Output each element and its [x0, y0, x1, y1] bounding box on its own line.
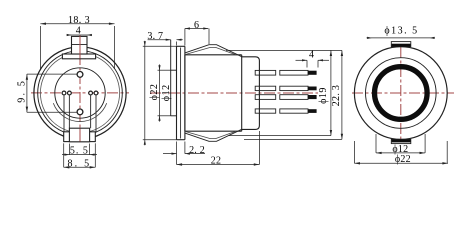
- terminal pin 3: [89, 91, 93, 95]
- bottom LED pin: [77, 109, 83, 115]
- centerline horizontal: [31, 92, 129, 94]
- middle view: side profile of pushbutton: [150, 40, 318, 142]
- dimension 22.3 (overall height): [331, 50, 343, 139]
- top clip tab: [391, 42, 411, 47]
- top keyway tab base bar: [62, 54, 95, 59]
- body barrel: [184, 55, 186, 131]
- svg-text:4: 4: [309, 50, 314, 61]
- dimension 3.7 (plunger protrusion): [147, 31, 182, 45]
- pin 4 lead line: [95, 95, 97, 132]
- centerline: [150, 92, 318, 94]
- extension line phi19 bottom: [229, 135, 331, 137]
- terminal pin 2: [68, 91, 72, 95]
- svg-text:6: 6: [194, 20, 199, 31]
- extension line top (22.3): [226, 49, 342, 51]
- svg-text:ϕ19: ϕ19: [318, 87, 329, 104]
- terminal pin 4: [94, 91, 98, 95]
- bezel inner circle: [38, 51, 123, 136]
- centerline horizontal: [352, 92, 454, 94]
- svg-text:9. 5: 9. 5: [16, 79, 27, 103]
- svg-text:ϕ13. 5: ϕ13. 5: [384, 25, 418, 36]
- plunger bottom: [171, 115, 177, 117]
- dimension phi13.5 (seal ring dia): [367, 25, 436, 39]
- dimension phi22 (outer dia): [354, 141, 448, 165]
- left view: front face of pushbutton: [31, 35, 129, 142]
- terminal housing end cap: [242, 57, 260, 130]
- svg-text:ϕ12: ϕ12: [161, 84, 172, 101]
- bottom locking key ramp: [185, 129, 242, 141]
- bezel ring (side): [176, 46, 178, 139]
- outer bezel circle: [34, 47, 126, 139]
- dimension 2.2 (bezel thickness): [163, 142, 205, 157]
- dimension 9.5 (pin spacing, left): [16, 74, 76, 112]
- plunger top: [171, 69, 177, 71]
- top keyway tab: [72, 36, 88, 54]
- top LED pin: [77, 72, 83, 78]
- lower arc of inner shoulder: [53, 103, 106, 121]
- plunger front face: [170, 40, 172, 116]
- bezel chamfer line: [180, 48, 182, 139]
- terminal pins: [255, 70, 276, 75]
- bottom clip tab: [391, 139, 411, 143]
- centerline vertical: [79, 35, 81, 142]
- centerline vertical: [400, 47, 402, 139]
- pin 3 lead line: [90, 95, 92, 128]
- extension line bottom (22.3): [244, 138, 342, 140]
- pin 2 lead line: [68, 95, 70, 128]
- dimension 4 (terminal length): [296, 50, 330, 68]
- dimension 6 (key length): [185, 20, 209, 45]
- button recess circle: [55, 68, 105, 118]
- centerline vertical (over tabs): [79, 35, 81, 59]
- pin 1 lead line: [63, 95, 65, 132]
- dimension 4 (tab width): [67, 26, 93, 37]
- dimension phi12 (seal inner dia): [376, 134, 425, 155]
- dimension 22 (body length): [177, 131, 260, 166]
- svg-text:3. 7: 3. 7: [147, 31, 163, 42]
- svg-text:2. 2: 2. 2: [189, 145, 205, 156]
- outer housing circle: [354, 47, 447, 140]
- terminal pin 1: [62, 91, 66, 95]
- mid circle: [366, 58, 437, 129]
- dimension 5.5 (inner shroud width): [62, 144, 97, 157]
- dimension phi19 (housing dia): [318, 50, 332, 135]
- mounting ring circle: [40, 53, 119, 132]
- svg-text:18. 3: 18. 3: [68, 15, 90, 26]
- svg-text:ϕ22: ϕ22: [149, 84, 160, 101]
- top locking key ramp: [185, 45, 242, 57]
- bottom connector shroud inner (5.5 wide): [69, 128, 89, 142]
- bottom connector shroud outer (8.5 wide): [64, 132, 96, 142]
- dimension phi12 (plunger dia): [158, 64, 173, 121]
- svg-text:22. 3: 22. 3: [331, 85, 342, 107]
- right view: rear of pushbutton: [352, 42, 454, 144]
- rubber seal black ring: [375, 67, 428, 120]
- dimension 8.5 (outer shroud width): [64, 143, 96, 169]
- dimension 18.3 (top width): [40, 15, 114, 69]
- dimension phi22 (bezel dia): [143, 41, 177, 146]
